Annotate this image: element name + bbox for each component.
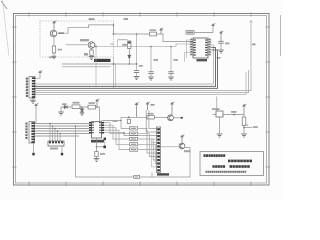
title block box xyxy=(200,152,264,176)
node dot edge xyxy=(113,33,115,35)
U1 right pin stubs xyxy=(208,40,212,55)
wire R9 to D3 xyxy=(128,49,130,56)
ground G3 xyxy=(148,77,154,80)
paper background xyxy=(0,0,283,200)
wire VCC8 tee xyxy=(121,116,147,118)
label C5 xyxy=(100,153,105,155)
wire Q2 emitter down xyxy=(91,48,93,50)
R9 top mark xyxy=(128,42,130,44)
power arrow VCC8 xyxy=(135,102,139,117)
part P2 below tee xyxy=(127,119,130,123)
wire base Q2 xyxy=(66,44,88,46)
net flag F3 xyxy=(130,137,138,140)
wire Q1 emitter down xyxy=(53,37,55,46)
wire RN1 down xyxy=(61,146,63,153)
label C2 xyxy=(174,59,179,61)
capacitor C3 chain xyxy=(136,34,138,70)
wire long mid feed xyxy=(96,44,193,47)
dashed box amplifier section xyxy=(40,21,114,57)
connector CN2 body xyxy=(157,127,161,173)
power arrow VCC9 xyxy=(146,102,150,110)
staircase wires flags to CN2 xyxy=(138,128,157,163)
node dot U2 bottom xyxy=(96,146,98,148)
wire R4 right xyxy=(194,26,213,32)
ground G13 under D2 xyxy=(80,113,84,115)
pin tick dashed edge xyxy=(111,43,114,45)
connector CN1 body xyxy=(29,77,35,99)
wire R7 to Q3 xyxy=(154,116,167,118)
wire R6 right to U2 xyxy=(96,107,100,122)
wire to pad right xyxy=(97,146,104,148)
R8 tick xyxy=(246,124,249,127)
part B1 box xyxy=(216,111,223,117)
CN3 vertical label xyxy=(25,123,27,125)
U2 right pads xyxy=(102,122,105,134)
power arrow VCC13 xyxy=(243,104,247,115)
resistor R2 xyxy=(90,50,93,56)
ground G4 xyxy=(168,77,174,80)
bus wire riser3 xyxy=(35,72,246,94)
U1 label below xyxy=(197,59,208,61)
capacitor C5 below U2 xyxy=(95,152,98,157)
node dot D3 row xyxy=(129,63,131,65)
wire node right xyxy=(244,127,252,129)
label R3 xyxy=(150,29,157,31)
label D1 xyxy=(62,103,67,105)
CN3 pads xyxy=(31,122,34,143)
net flag F2 xyxy=(130,132,138,135)
label P2 xyxy=(113,120,118,122)
power arrow VCC2 xyxy=(160,28,164,34)
bus wire A to U1 xyxy=(35,45,213,84)
terminal pad RN1 xyxy=(61,153,63,156)
wire long left rail xyxy=(76,126,153,177)
label C1 xyxy=(154,59,159,61)
terminal pad U2 upper xyxy=(104,138,106,140)
node dot feed xyxy=(95,46,97,48)
resistor R7 xyxy=(147,116,154,119)
power arrow VCC3 xyxy=(212,23,216,26)
wire U2 right fan xyxy=(104,123,156,150)
frame zone ticks left xyxy=(12,27,17,167)
frame zone ticks bottom xyxy=(29,182,251,187)
net flag F1 xyxy=(130,127,138,130)
capacitor C2 drop xyxy=(170,47,172,72)
U1 pin numbers left xyxy=(190,39,192,55)
wire R5 right xyxy=(80,106,88,108)
U1 pin numbers right xyxy=(209,39,211,55)
power arrow VCC12 xyxy=(181,135,185,143)
wire CN2 entry top1 xyxy=(146,110,156,132)
net flag GND rail xyxy=(134,175,140,178)
wire Q1 collector to node A xyxy=(57,25,150,34)
scan artifact right edge line xyxy=(280,15,282,56)
bus wires from CN3 xyxy=(35,124,89,137)
wire Q3 right xyxy=(173,117,181,119)
wire B1 down xyxy=(219,117,221,134)
wire lower node row xyxy=(62,63,137,65)
wire vertical pair to bus xyxy=(113,57,115,88)
scan artifact corner mark xyxy=(1,1,7,9)
net flag F5 xyxy=(130,148,138,151)
node dot fan xyxy=(123,132,125,134)
node dot top row xyxy=(120,120,122,122)
label sw xyxy=(231,111,237,113)
label Q1 value xyxy=(59,32,65,34)
U2 left pads xyxy=(89,122,92,134)
label under dashed box xyxy=(94,59,111,62)
terminal pad U2 xyxy=(103,146,106,149)
ground G8 xyxy=(58,112,64,115)
label VCC9 xyxy=(151,104,155,106)
node dot tee xyxy=(128,116,130,118)
U1 pin labels left xyxy=(194,39,196,55)
transistor Q5 xyxy=(179,143,185,149)
U1 pin labels right xyxy=(205,39,207,55)
wire Q2 collector xyxy=(95,44,96,46)
resistor R9 xyxy=(128,41,131,49)
U2 pin labels left xyxy=(92,122,94,133)
label C4 xyxy=(225,43,230,45)
ground G12 xyxy=(241,134,247,137)
node dot VCC14 xyxy=(96,106,98,108)
ground G10 xyxy=(94,158,100,161)
ground G6 xyxy=(30,100,36,103)
node dot rail top xyxy=(75,125,77,127)
wire R8 junction xyxy=(243,115,245,134)
ground G11 xyxy=(217,134,223,137)
terminal pad CN3 xyxy=(32,153,34,156)
frame zone ticks right xyxy=(266,27,271,167)
op-amp U1 body xyxy=(193,38,208,58)
power arrow VCC7 xyxy=(35,106,36,123)
wire lower second row xyxy=(62,66,111,68)
title block text line 4 xyxy=(206,171,247,173)
transistor Q2 xyxy=(88,42,95,49)
diode D1 xyxy=(61,105,71,108)
ground G2 xyxy=(134,77,140,80)
connector CN3 body xyxy=(29,122,35,144)
wire B1 left stub xyxy=(213,114,217,116)
U2 pin labels right xyxy=(99,122,101,133)
ground G14 under R1 xyxy=(52,56,56,58)
resistor R3 xyxy=(150,32,157,36)
node dots on bus xyxy=(49,123,61,135)
terminal pad Q3 xyxy=(181,117,183,119)
node dot C3 up xyxy=(136,33,138,35)
wire vertical x96 to bus xyxy=(95,45,97,87)
power arrow VCC10 xyxy=(171,102,175,115)
title block text line 3a xyxy=(213,165,226,168)
wire B1 right xyxy=(223,114,244,116)
frame inner border xyxy=(16,16,267,184)
CN1 vertical label xyxy=(26,78,28,80)
wire left gnd drop xyxy=(60,107,62,112)
wire R9 top xyxy=(118,39,128,41)
resistor network RN1 xyxy=(48,141,64,146)
label out xyxy=(253,126,258,128)
wire top row net left xyxy=(102,120,105,122)
transistor Q3 xyxy=(168,115,174,121)
title block text line 1 xyxy=(204,154,226,157)
transistor Q1 xyxy=(50,30,57,37)
wire CN1 ground stub xyxy=(32,98,34,100)
wire CN2 entry top2 xyxy=(149,110,157,128)
node dot R8 xyxy=(243,127,245,129)
power arrow bus riser xyxy=(250,21,253,23)
frame outer border xyxy=(14,14,270,186)
net flag F4 xyxy=(130,143,138,146)
wire Q5 emitter loop xyxy=(152,148,190,178)
wire U2 bottom chain xyxy=(96,138,98,152)
label R7 xyxy=(148,113,154,115)
wire tee elbow xyxy=(120,117,122,120)
resistor R4 above U1 xyxy=(186,31,194,34)
RN1 pads xyxy=(49,142,63,144)
label C3 xyxy=(139,65,143,67)
IC U2 body xyxy=(92,122,102,138)
label R5 xyxy=(73,102,80,104)
label under R1 xyxy=(49,56,53,58)
label R6 xyxy=(89,102,96,104)
title block text line 3b xyxy=(230,165,250,168)
CN2 pads xyxy=(157,128,160,171)
zone label mark 2 xyxy=(89,18,95,20)
wire top row net xyxy=(104,120,121,122)
wire R3 to U1 xyxy=(157,34,194,42)
frame zone ticks top xyxy=(29,12,251,17)
node dot edge top xyxy=(113,24,115,26)
diode D3 down xyxy=(128,55,131,58)
wire C5 down xyxy=(96,157,98,159)
zone label mark xyxy=(124,18,129,20)
wire top row to flag1 xyxy=(121,121,130,129)
ground G5 xyxy=(218,50,224,53)
U2 label below xyxy=(91,140,104,143)
diode D2 down xyxy=(80,107,83,112)
staircase extra column xyxy=(152,139,157,167)
label bus riser xyxy=(252,44,256,46)
node dot junction xyxy=(113,63,115,65)
label R2 xyxy=(84,53,88,56)
wire CN3 bottom stub xyxy=(33,143,35,153)
wire CN2 out right xyxy=(161,146,180,148)
node dot C3 top xyxy=(136,63,138,65)
wire B1 top feed xyxy=(216,97,218,112)
U1 left pin stubs xyxy=(190,40,194,55)
capacitor C4 xyxy=(218,41,223,43)
wire D3 to row xyxy=(128,58,130,64)
power arrow VCC14 xyxy=(96,99,100,107)
title block text line 2 xyxy=(228,160,252,163)
wire U1 left drop2 xyxy=(185,53,190,63)
capacitor C1 drop xyxy=(150,47,152,72)
bus wire riser2 xyxy=(35,70,248,93)
label RN1 xyxy=(50,148,58,150)
label Q5 xyxy=(184,150,191,152)
wire R1 down xyxy=(53,53,55,56)
resistor R1 xyxy=(52,46,55,53)
power arrow VCC5 xyxy=(220,31,224,41)
node dot C2 xyxy=(170,46,172,48)
CN1 pads xyxy=(32,77,35,98)
wire pad link xyxy=(104,140,106,146)
wire U1 left drop1 xyxy=(187,40,190,58)
resistor network drops xyxy=(50,124,60,142)
power arrow VCC1 xyxy=(53,21,57,31)
label R1 xyxy=(58,49,63,51)
bus wire VCC riser xyxy=(35,23,251,91)
scan artifact diagonal top-left xyxy=(3,0,10,56)
label R9 xyxy=(122,44,127,46)
label Q2 xyxy=(80,39,89,41)
power arrow VCC6 xyxy=(35,73,40,78)
bus wires dark pair to U1 xyxy=(35,48,217,89)
resistor R6 xyxy=(88,105,96,109)
node dot sw xyxy=(233,114,235,116)
resistor R5 xyxy=(72,105,80,109)
label near U1 right xyxy=(217,57,221,59)
resistor R8 xyxy=(242,117,246,126)
label B1 xyxy=(212,108,220,110)
node dot C1 xyxy=(150,46,152,48)
CN2 label xyxy=(157,173,169,175)
ground G1 xyxy=(89,57,95,60)
node dot D2 xyxy=(81,106,83,108)
